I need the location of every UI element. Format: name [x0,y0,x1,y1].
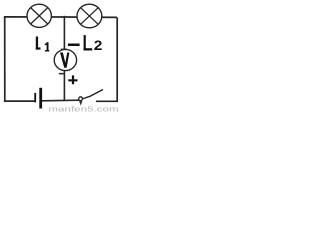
lamp L2 [77,4,102,28]
wire top horizontal [4,16,117,19]
wire bottom right segment (switch contact to corner) [96,100,118,102]
wire middle vertical upper (node between lamps to voltmeter) [63,16,65,50]
voltmeter terminal tick bottom [59,73,64,75]
wire bottom middle segment (battery to switch) [42,99,79,102]
wire left vertical [4,17,6,101]
lamp L1 [27,4,51,27]
battery B1 long plate [39,88,42,109]
svg-text:manfen5.com: manfen5.com [48,105,118,113]
voltmeter minus polarity mark [68,44,80,47]
voltmeter terminal tick top [61,49,67,50]
wire right vertical [116,17,118,101]
voltmeter letter V [60,53,69,68]
switch S1 pivot tail mark [79,101,82,106]
voltmeter U1 circle [54,49,76,70]
label L1 letter L [36,37,41,50]
wire bottom left segment (to battery) [4,100,35,102]
label L2 letter L [84,35,93,50]
label L1 subscript 1 [45,42,50,51]
switch S1 pivot circle [79,97,83,101]
wire middle vertical lower (voltmeter to bottom wire) [63,71,65,102]
switch S1 lever (open) [82,90,103,100]
voltmeter plus polarity mark [68,75,77,84]
battery B1 short plate [34,93,36,103]
svg-text:2: 2 [94,38,103,54]
